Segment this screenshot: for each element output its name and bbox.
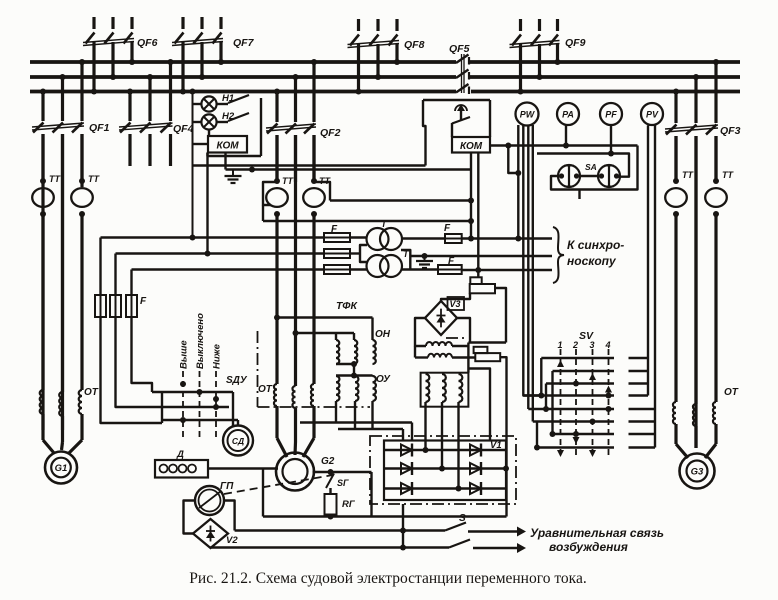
wire TT secondary line y200	[330, 198, 474, 204]
generator G1	[45, 452, 77, 484]
SV contact rows	[523, 358, 614, 457]
TFK primary winding rows	[426, 342, 475, 358]
generator G3	[680, 454, 715, 489]
fuse F (sync secondary top)	[445, 234, 462, 243]
brace to synchroscope	[553, 227, 564, 283]
lamp switch contacts	[217, 95, 261, 156]
circuit breaker QF2	[266, 59, 317, 182]
signal lamp H2	[201, 114, 216, 129]
wire generator panel to sync relay	[226, 153, 472, 173]
TFK secondary frame	[421, 373, 469, 492]
svg-text:QF2: QF2	[320, 127, 341, 139]
wire measuring line L2	[116, 252, 325, 254]
relay box KOM (synchronization)	[452, 137, 490, 153]
fuse F set (sync transformer primary)	[324, 233, 350, 274]
svg-text:2: 2	[572, 340, 578, 350]
svg-text:V3: V3	[450, 299, 461, 309]
wire OU outputs	[300, 423, 412, 441]
fuse F (sync secondary bottom)	[438, 265, 462, 274]
voltmeter PV	[641, 103, 663, 125]
wire PW measuring bundle	[515, 125, 541, 422]
svg-text:ОТ: ОТ	[724, 387, 739, 398]
wire TT secondary line y221	[263, 218, 474, 224]
ground (panel)	[232, 170, 234, 177]
svg-text:ТТ: ТТ	[282, 176, 294, 186]
stator winding OT of G3	[673, 402, 716, 458]
SV right stubs lower	[629, 409, 656, 448]
svg-text:ОТ: ОТ	[258, 384, 273, 395]
svg-text:F: F	[140, 296, 147, 307]
svg-text:ТТ: ТТ	[49, 174, 61, 184]
SDU control switch dashed contacts	[180, 371, 219, 440]
svg-text:QF1: QF1	[89, 122, 110, 134]
wires fuse tops to measuring lines	[101, 238, 132, 296]
synchro transmitter SD	[223, 426, 253, 456]
svg-text:G2: G2	[321, 456, 335, 467]
svg-text:F: F	[448, 256, 455, 267]
signal lamp H1	[201, 96, 216, 111]
wires V3 to windings	[415, 318, 490, 441]
circuit breaker QF6	[83, 17, 135, 95]
stator winding OT of G2	[274, 384, 314, 457]
svg-text:носкопу: носкопу	[567, 254, 617, 268]
wire upper fuse leg to transformer	[468, 343, 506, 373]
wire L3 to synchroscope	[462, 269, 552, 271]
svg-text:ГП: ГП	[220, 481, 234, 492]
wire sync box to generator panel	[193, 164, 426, 166]
svg-text:S: S	[459, 513, 466, 524]
svg-text:3: 3	[590, 340, 595, 350]
svg-text:F: F	[444, 223, 451, 234]
circuit breaker QF1	[32, 59, 85, 430]
svg-text:QF4: QF4	[173, 123, 194, 135]
svg-text:SГ: SГ	[337, 478, 349, 488]
ammeter PA	[557, 103, 579, 125]
SV right stubs upper	[629, 358, 649, 396]
circuit breaker QF4	[119, 59, 174, 166]
circuit breaker QF7	[172, 17, 224, 95]
wire PV down legs	[648, 126, 655, 448]
current transformer TT at x=716	[705, 178, 727, 217]
rectifier bridge V1	[370, 436, 516, 504]
svg-text:SA: SA	[585, 162, 597, 172]
svg-text:PW: PW	[520, 110, 536, 120]
current transformer TT at x=43	[32, 178, 54, 217]
svg-text:ОУ: ОУ	[376, 374, 391, 385]
svg-text:QF9: QF9	[565, 37, 586, 49]
wire PF down to SA	[608, 125, 614, 157]
svg-text:PF: PF	[605, 110, 617, 120]
svg-text:G3: G3	[691, 466, 704, 477]
svg-text:F: F	[331, 224, 338, 235]
arrow equalizing 1	[468, 527, 526, 537]
wire KOM sync down leg 1	[468, 153, 474, 242]
wire field bus A	[263, 515, 507, 517]
current transformer TT at x=277	[266, 178, 288, 217]
svg-text:SДУ: SДУ	[226, 375, 248, 386]
svg-text:ТТ: ТТ	[88, 174, 100, 184]
svg-text:PA: PA	[562, 110, 574, 120]
svg-text:Уравнительная связь: Уравнительная связь	[530, 526, 664, 540]
TT secondary hooks	[263, 182, 330, 221]
svg-text:ОН: ОН	[375, 329, 391, 340]
svg-text:V1: V1	[490, 440, 502, 451]
svg-text:V2: V2	[226, 535, 238, 546]
wire L1 to synchroscope	[462, 237, 552, 239]
current transformer TT at x=314	[303, 178, 325, 217]
svg-text:RГ: RГ	[342, 499, 356, 510]
svg-text:СД: СД	[232, 436, 244, 446]
svg-text:ТТ: ТТ	[722, 170, 734, 180]
svg-text:QF3: QF3	[720, 125, 741, 137]
sync transformer T (two windings)	[360, 228, 410, 277]
wire bridge output	[400, 504, 406, 551]
circuit breaker QF9	[510, 19, 561, 95]
frequency meter PF	[600, 103, 622, 125]
wire KOM to bundle	[490, 143, 638, 177]
synchronizing check switch (bus section)	[423, 100, 490, 166]
relay box KOM (generator panel)	[208, 130, 262, 156]
svg-text:QF8: QF8	[404, 39, 425, 51]
rectifier V3 (excitation)	[425, 301, 457, 335]
wire equalizing line C	[210, 546, 449, 548]
svg-text:К синхро-: К синхро-	[567, 238, 624, 252]
shaft coupling dashed	[224, 475, 333, 494]
wire feeder taps to TFK	[274, 315, 373, 341]
stator winding OT of G1	[40, 390, 82, 453]
wire PA down	[563, 125, 569, 149]
fuse block (excitation lower)	[474, 347, 507, 517]
generator G2	[276, 453, 314, 491]
wires fuse bottoms to SDU hooks	[101, 317, 163, 423]
wire KOM sync down leg 2	[475, 153, 481, 278]
SV contact columns	[558, 340, 611, 459]
svg-text:4: 4	[605, 340, 611, 350]
discharge resistor RG	[325, 488, 337, 520]
arrow equalizing 2	[473, 543, 526, 553]
svg-text:Выключено: Выключено	[195, 313, 206, 369]
wire G2 phase feeders	[277, 135, 314, 386]
wire transformer secondary to sync lines	[402, 239, 552, 270]
circuit breaker QF3	[665, 59, 719, 448]
wire KOM panel down	[205, 153, 211, 257]
wires GP to V2	[184, 501, 235, 534]
wire G1 phase feeders	[43, 134, 82, 392]
svg-text:ТФК: ТФК	[336, 300, 358, 312]
boundary dash-dot (regulator unit)	[258, 331, 469, 407]
svg-text:Ниже: Ниже	[212, 343, 223, 369]
shunt contact SG	[326, 469, 334, 488]
svg-text:PV: PV	[646, 110, 659, 120]
winding ON (voltage winding)	[336, 340, 376, 379]
wire D to G2	[208, 467, 278, 469]
wire measuring line L3	[132, 268, 325, 270]
svg-text:Рис. 21.2. Схема судовой элект: Рис. 21.2. Схема судовой электростанции …	[189, 570, 586, 587]
ground (sync transformer neutral)	[416, 253, 433, 268]
busbar section left (3-phase)	[30, 62, 456, 92]
svg-text:QF5: QF5	[449, 43, 470, 55]
svg-text:возбуждения: возбуждения	[549, 540, 628, 554]
wire lamp feed from bus	[190, 89, 209, 241]
svg-text:QF7: QF7	[233, 37, 255, 49]
wire G3 phase feeders	[676, 136, 716, 404]
svg-text:G1: G1	[55, 463, 68, 474]
svg-text:ОТ: ОТ	[84, 387, 99, 398]
winding OU (control winding)	[336, 376, 376, 430]
label V3 box	[448, 297, 465, 310]
svg-text:Выше: Выше	[179, 340, 190, 369]
svg-text:1: 1	[558, 340, 563, 350]
current transformer TT at x=676	[665, 178, 687, 217]
wire G2 field loop	[263, 469, 372, 517]
switch S	[445, 523, 470, 548]
pilot exciter GP	[195, 486, 224, 515]
svg-text:ТТ: ТТ	[682, 170, 694, 180]
rectifier V2	[193, 519, 228, 548]
SDU contact rows	[146, 389, 238, 427]
current transformer TT at x=82	[71, 178, 93, 217]
svg-text:КОМ: КОМ	[216, 141, 239, 152]
svg-text:QF6: QF6	[137, 37, 158, 49]
svg-text:Д: Д	[176, 449, 184, 460]
wattmeter PW	[516, 103, 539, 126]
instrument switch SA	[537, 146, 638, 200]
svg-text:КОМ: КОМ	[460, 141, 483, 152]
bus-tie disconnect QF5	[456, 54, 469, 94]
wire equalizing line B	[235, 529, 445, 531]
fuse F set (G1 measuring circuits)	[95, 295, 137, 317]
fuse block (excitation supply upper)	[441, 277, 506, 342]
wires fuses to sync transformer	[350, 238, 367, 270]
circuit breaker QF8	[348, 19, 401, 95]
diesel governor unit D	[155, 460, 208, 478]
wire measuring line L1	[101, 236, 325, 238]
busbar section right (3-phase)	[470, 62, 740, 92]
